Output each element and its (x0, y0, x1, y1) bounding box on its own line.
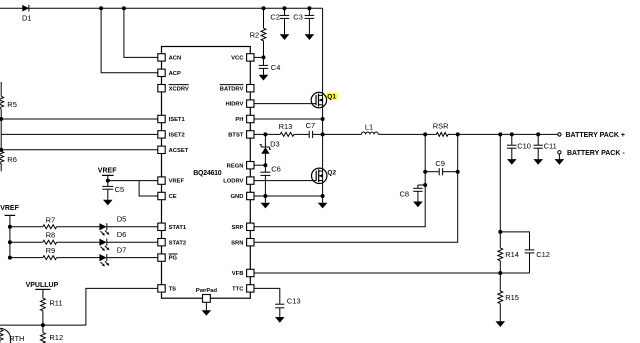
svg-text:D7: D7 (117, 245, 127, 254)
svg-text:ISET1: ISET1 (169, 117, 186, 123)
pin ACSET (158, 146, 189, 154)
pin VREF (158, 177, 185, 185)
pin BTST (228, 131, 254, 139)
resistor R15 (498, 273, 519, 321)
svg-text:GND: GND (231, 194, 244, 200)
svg-text:C2: C2 (270, 13, 280, 22)
transistor Q1 (311, 92, 338, 107)
capacitor C13 (275, 297, 300, 308)
resistor R2 (250, 8, 266, 57)
resistor R7 (10, 215, 57, 229)
svg-text:RSR: RSR (433, 121, 449, 130)
wire ISET2 (1, 133, 158, 135)
ground below C5 (103, 189, 113, 205)
wire LODRV to Q2 gate (254, 180, 316, 182)
svg-text:C8: C8 (400, 189, 410, 198)
svg-text:SRP: SRP (231, 225, 243, 231)
svg-text:D3: D3 (270, 139, 280, 148)
pin REGN (227, 162, 254, 170)
svg-text:STAT2: STAT2 (169, 240, 187, 246)
resistor R14 (498, 132, 519, 273)
ground below C2 (280, 18, 290, 40)
ground below C11 (533, 148, 543, 165)
node rail junction C2 (283, 6, 287, 10)
node rail junction R2 (262, 6, 266, 10)
svg-text:TTC: TTC (232, 287, 244, 293)
capacitor C8 (400, 185, 426, 198)
svg-text:BATTERY PACK -: BATTERY PACK - (567, 150, 625, 157)
svg-text:R7: R7 (46, 215, 56, 224)
wire ACSET (0, 119, 158, 152)
pin SRP (231, 223, 254, 231)
svg-text:C11: C11 (544, 141, 557, 150)
resistor R12 (41, 325, 64, 343)
svg-text:R9: R9 (46, 246, 56, 255)
wire GND row (254, 194, 324, 198)
svg-text:STAT1: STAT1 (169, 225, 187, 231)
pin VCC (231, 54, 254, 62)
wire PH (254, 117, 324, 121)
node VPULLUP supply (26, 282, 59, 298)
svg-text:R14: R14 (505, 250, 519, 259)
wire left divider stem (0, 82, 2, 97)
svg-text:C3: C3 (293, 13, 303, 22)
svg-text:VREF: VREF (169, 179, 185, 185)
svg-text:CE: CE (169, 194, 177, 200)
svg-text:ACN: ACN (169, 56, 182, 62)
pin HIDRV (225, 100, 254, 108)
pin ISET1 (158, 115, 186, 123)
svg-text:R13: R13 (279, 122, 293, 131)
svg-text:TS: TS (169, 287, 177, 293)
ground below BATTERY PACK - (555, 154, 565, 165)
resistor R6 (0, 151, 17, 171)
svg-text:L1: L1 (365, 123, 373, 132)
wire VREF to pin (108, 180, 158, 182)
svg-text:C4: C4 (271, 63, 281, 72)
svg-text:VREF: VREF (98, 167, 117, 174)
svg-text:R6: R6 (7, 155, 17, 164)
pin ACN (158, 54, 181, 62)
ground below C10 (507, 148, 517, 165)
ground below Q2 (318, 196, 328, 208)
svg-text:R5: R5 (7, 100, 17, 109)
pin GND (231, 192, 254, 200)
svg-text:LODRV: LODRV (223, 179, 243, 185)
svg-text:VFB: VFB (232, 271, 244, 277)
svg-text:C9: C9 (435, 159, 445, 168)
resistor R11 (41, 298, 63, 325)
svg-text:R11: R11 (49, 299, 62, 308)
svg-text:BATDRV: BATDRV (220, 86, 244, 92)
wire PH node to L1 (323, 133, 362, 135)
svg-text:XCDRV: XCDRV (169, 86, 189, 92)
wire SRN net (254, 134, 458, 242)
svg-text:REGN: REGN (227, 163, 244, 169)
node STAT1 junction (8, 225, 12, 229)
wire ACN branch (124, 8, 158, 57)
transistor Q2 (312, 168, 337, 183)
ground below PwrPad (202, 302, 212, 315)
svg-text:C10: C10 (517, 141, 531, 150)
wire ISET1 (1, 118, 158, 120)
wire AC input top rail (0, 7, 323, 9)
svg-text:R8: R8 (46, 231, 56, 240)
wire RSR to battery (448, 132, 558, 136)
svg-text:C7: C7 (306, 121, 316, 130)
svg-text:R15: R15 (505, 293, 519, 302)
svg-text:PG: PG (169, 256, 178, 262)
pin STAT2 (158, 239, 186, 247)
pin LODRV (223, 177, 254, 185)
wire CE tie to VREF (139, 181, 158, 196)
wire TS net (0, 288, 158, 325)
svg-text:VPULLUP: VPULLUP (26, 282, 59, 289)
capacitor C5 (102, 181, 124, 195)
node BATTERY PACK - terminal (558, 150, 626, 157)
svg-text:HIDRV: HIDRV (225, 102, 243, 108)
inductor L1 (361, 123, 378, 135)
ground below C13 (275, 308, 285, 323)
svg-text:C12: C12 (536, 250, 550, 259)
node AC rail junction to ACN (122, 6, 126, 10)
capacitor C3 (293, 8, 314, 21)
pin TTC (232, 285, 254, 293)
LED D6 (57, 230, 158, 251)
node TS divider junction (41, 323, 45, 327)
node AC rail junction to ACP (99, 6, 103, 10)
thermistor RTH (0, 328, 24, 343)
svg-text:C6: C6 (271, 164, 281, 173)
resistor R9 (10, 246, 57, 260)
node VREF supply mid (98, 167, 117, 182)
node VREF supply left (0, 205, 19, 258)
capacitor C4 (259, 57, 281, 72)
pin XCDRV (158, 85, 189, 93)
node STAT2 junction (8, 240, 12, 244)
node VCC junction (254, 55, 265, 59)
node C8 tap junction (423, 183, 427, 187)
svg-text:D6: D6 (117, 230, 127, 239)
wire VFB net (254, 271, 529, 275)
pin PH (235, 115, 254, 123)
ground below C4 (259, 68, 269, 80)
svg-text:ACSET: ACSET (169, 148, 189, 154)
svg-text:Q1: Q1 (327, 94, 336, 101)
capacitor C2 (270, 8, 289, 21)
resistor R13 (279, 122, 310, 136)
op-amp U1 BQ24610 IC body (162, 47, 251, 299)
svg-text:C5: C5 (115, 185, 125, 194)
LED D7 (57, 245, 158, 266)
svg-text:D5: D5 (117, 215, 127, 224)
svg-text:PwrPad: PwrPad (196, 288, 218, 294)
wire L1 to RSR (378, 132, 427, 136)
svg-text:ISET2: ISET2 (169, 133, 185, 139)
node BATTERY PACK + terminal (558, 132, 625, 139)
diode D1 (22, 5, 32, 23)
svg-text:BQ24610: BQ24610 (193, 170, 222, 177)
capacitor C10 (507, 132, 531, 150)
wire ACP branch (101, 8, 158, 73)
capacitor C12 (500, 232, 550, 273)
svg-text:D1: D1 (22, 13, 32, 22)
svg-text:R2: R2 (250, 31, 260, 40)
svg-text:Q2: Q2 (327, 169, 336, 176)
ground below R15 (496, 321, 506, 327)
node ISET1 junction (0, 117, 3, 121)
pin BATDRV (220, 85, 254, 93)
LED D5 (57, 215, 158, 236)
svg-text:R12: R12 (49, 333, 63, 342)
resistor R5 (0, 97, 17, 120)
wire TTC (254, 288, 280, 304)
ground below C8 (413, 191, 423, 207)
wire SRP net (254, 134, 425, 226)
capacitor C6 (260, 164, 280, 196)
svg-text:VCC: VCC (231, 56, 244, 62)
ground below C3 (305, 18, 315, 40)
capacitor C11 (534, 132, 557, 150)
node C9 right junction (456, 170, 460, 174)
svg-text:SRN: SRN (231, 240, 243, 246)
wire BTST row (254, 133, 280, 135)
resistor R8 (10, 231, 57, 245)
wire REGN (254, 163, 267, 167)
svg-text:VREF: VREF (0, 205, 19, 212)
svg-text:C13: C13 (287, 297, 301, 306)
node PG junction (8, 256, 12, 260)
diode D3 (260, 134, 280, 165)
pin VFB (232, 269, 254, 277)
svg-text:BTST: BTST (228, 133, 244, 139)
pin CE (158, 192, 177, 200)
pin STAT1 (158, 223, 187, 231)
pin ACP (158, 69, 181, 77)
pin PwrPad (196, 288, 218, 302)
resistor RSR (425, 121, 449, 136)
svg-text:ACP: ACP (169, 71, 181, 77)
pin SRN (231, 239, 254, 247)
node rail junction C3 (307, 6, 311, 10)
pin PG (158, 254, 178, 262)
svg-text:RTH: RTH (9, 334, 24, 343)
pin ISET2 (158, 131, 185, 139)
capacitor C9 (425, 159, 458, 176)
svg-text:BATTERY PACK +: BATTERY PACK + (566, 132, 625, 139)
wire drain column Q1-Q2 (322, 8, 324, 196)
svg-text:PH: PH (235, 117, 243, 123)
capacitor C7 (306, 121, 325, 138)
pin TS (158, 285, 176, 293)
ground below C6 (261, 196, 271, 208)
wire HIDRV to Q1 gate (254, 103, 316, 105)
node BTST junction D3 (263, 132, 267, 136)
node C9 left junction (423, 170, 427, 174)
